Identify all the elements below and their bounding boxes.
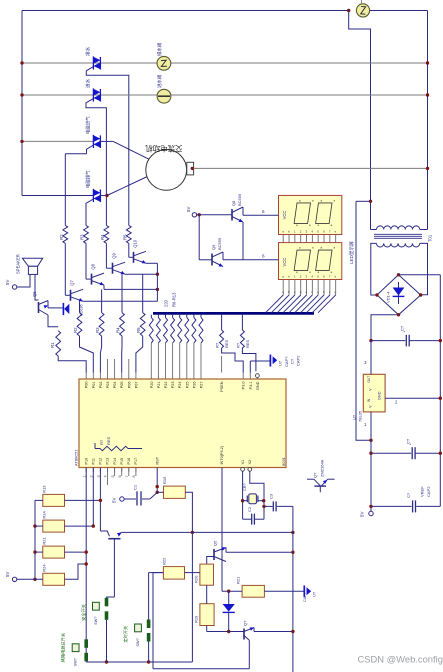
svg-text:R13: R13 [42, 485, 47, 493]
svg-text:R19: R19 [194, 615, 199, 623]
svg-text:R22: R22 [162, 557, 167, 565]
svg-text:R15: R15 [162, 476, 167, 484]
svg-text:P14: P14 [113, 458, 117, 465]
svg-text:BC559: BC559 [217, 237, 222, 250]
svg-text:SW?: SW? [74, 658, 78, 666]
svg-text:VREF: VREF [420, 486, 425, 497]
svg-text:220: 220 [164, 299, 169, 307]
svg-text:Q?: Q? [313, 472, 318, 478]
svg-text:安全开关: 安全开关 [80, 604, 87, 621]
svg-text:R21: R21 [42, 536, 47, 544]
svg-text:电磁进气: 电磁进气 [85, 116, 92, 134]
svg-text:8031: 8031 [281, 456, 286, 466]
svg-text:C?: C? [406, 492, 411, 498]
svg-text:Q5: Q5 [213, 540, 218, 546]
svg-text:R4: R4 [100, 234, 105, 240]
svg-text:X1: X1 [241, 460, 245, 465]
svg-text:GND: GND [378, 391, 382, 400]
svg-text:SPEAKER: SPEAKER [16, 254, 21, 274]
svg-text:5V: 5V [5, 280, 10, 285]
svg-text:Q8: Q8 [231, 200, 236, 206]
svg-text:P03: P03 [106, 382, 110, 389]
svg-text:P11: P11 [92, 458, 96, 464]
svg-text:Q7: Q7 [70, 280, 75, 286]
svg-text:P10: P10 [84, 458, 88, 465]
svg-text:R?: R? [99, 439, 104, 445]
svg-text:P06: P06 [127, 382, 131, 389]
svg-text:U7: U7 [278, 360, 283, 366]
svg-text:T01: T01 [428, 234, 433, 242]
svg-text:Q9: Q9 [112, 252, 117, 258]
svg-text:R20: R20 [194, 575, 199, 583]
svg-text:烤箱电源总开关: 烤箱电源总开关 [60, 633, 67, 662]
svg-text:C?: C? [406, 438, 411, 444]
svg-text:电磁排气: 电磁排气 [85, 170, 92, 188]
svg-text:P02: P02 [99, 382, 103, 389]
svg-text:R5: R5 [122, 234, 127, 240]
svg-text:R6-R13: R6-R13 [172, 292, 177, 307]
svg-text:P25: P25 [185, 382, 189, 389]
svg-text:Q10: Q10 [133, 239, 138, 248]
svg-text:P16: P16 [127, 458, 131, 465]
svg-text:5V: 5V [5, 572, 10, 577]
svg-text:78L05: 78L05 [358, 410, 363, 422]
svg-text:5V: 5V [112, 498, 117, 503]
svg-text:排水阀: 排水阀 [156, 43, 163, 56]
svg-text:INT0(P3.2): INT0(P3.2) [220, 445, 224, 464]
svg-text:C1: C1 [133, 484, 138, 490]
svg-text:CAP?: CAP? [303, 592, 307, 602]
svg-text:Q6: Q6 [32, 291, 37, 297]
svg-text:R21: R21 [236, 576, 241, 584]
svg-text:RES: RES [245, 339, 250, 348]
svg-text:CSDN @Web.config: CSDN @Web.config [358, 654, 443, 665]
svg-text:5V: 5V [186, 207, 191, 212]
svg-text:Q9: Q9 [211, 244, 216, 250]
svg-text:ZM2164A: ZM2164A [320, 459, 325, 477]
svg-text:C2: C2 [247, 506, 252, 512]
svg-text:R2: R2 [59, 234, 64, 240]
svg-text:CAP2: CAP2 [426, 486, 431, 497]
svg-text:P24: P24 [178, 382, 182, 389]
svg-text:VCC: VCC [282, 258, 287, 267]
svg-text:P13: P13 [106, 458, 110, 465]
svg-text:OUT: OUT [367, 376, 371, 383]
svg-text:P20: P20 [150, 382, 154, 389]
svg-text:R2: R2 [73, 327, 78, 333]
svg-text:P00: P00 [85, 382, 89, 389]
svg-text:P21: P21 [157, 382, 161, 389]
svg-text:P15: P15 [120, 458, 124, 465]
svg-text:SW?: SW? [136, 638, 140, 646]
svg-text:P27: P27 [200, 382, 204, 389]
svg-text:RES: RES [106, 436, 111, 445]
svg-text:R1: R1 [50, 342, 55, 348]
svg-text:Q?: Q? [243, 620, 248, 626]
svg-text:SW?: SW? [94, 617, 98, 625]
svg-text:U?: U? [312, 591, 317, 597]
svg-text:RST: RST [155, 456, 159, 464]
svg-text:R?: R? [215, 342, 220, 348]
svg-text:PSEN: PSEN [220, 381, 224, 392]
svg-text:P07: P07 [134, 382, 138, 389]
svg-text:X2: X2 [248, 460, 252, 465]
svg-text:进水: 进水 [85, 78, 92, 88]
svg-text:R?: R? [235, 342, 240, 348]
svg-text:P26: P26 [192, 382, 196, 389]
svg-text:C?: C? [400, 325, 405, 331]
svg-text:R4: R4 [116, 327, 121, 333]
svg-text:6: 6 [262, 209, 265, 214]
svg-text:P04: P04 [113, 382, 117, 389]
svg-text:U?: U? [352, 414, 357, 420]
svg-text:R5: R5 [136, 327, 141, 333]
svg-text:P12: P12 [99, 458, 103, 465]
svg-text:排水: 排水 [85, 46, 92, 56]
svg-text:VCC: VCC [282, 211, 287, 220]
svg-text:RES: RES [224, 339, 229, 348]
svg-text:R3: R3 [95, 327, 100, 333]
svg-text:BC559: BC559 [237, 193, 242, 206]
svg-text:C3: C3 [269, 493, 274, 499]
svg-text:CAP?: CAP? [284, 356, 289, 367]
svg-text:P3.1: P3.1 [249, 382, 253, 390]
svg-text:定时开关: 定时开关 [122, 626, 129, 643]
svg-text:P23: P23 [171, 382, 175, 389]
svg-text:P3.0: P3.0 [242, 382, 246, 390]
svg-text:CAP2: CAP2 [296, 355, 301, 366]
svg-text:AT89C51: AT89C51 [74, 449, 79, 466]
svg-text:6: 6 [262, 254, 265, 259]
svg-text:进水阀: 进水阀 [156, 75, 163, 88]
svg-text:CR?: CR? [243, 483, 247, 491]
svg-text:P17: P17 [134, 458, 138, 465]
svg-text:VD1-4: VD1-4 [386, 291, 391, 303]
svg-text:Q8: Q8 [91, 263, 96, 269]
svg-text:R3: R3 [80, 234, 85, 240]
svg-text:GND: GND [256, 381, 260, 390]
svg-text:f: f [311, 290, 312, 294]
svg-text:交流电动机: 交流电动机 [145, 144, 183, 153]
svg-text:P01: P01 [92, 382, 96, 389]
svg-text:P05: P05 [120, 382, 124, 389]
svg-text:C?: C? [290, 358, 295, 364]
svg-text:R24: R24 [42, 564, 47, 572]
svg-text:P22: P22 [164, 382, 168, 389]
svg-text:5V: 5V [360, 512, 365, 517]
svg-text:R14: R14 [42, 510, 47, 518]
